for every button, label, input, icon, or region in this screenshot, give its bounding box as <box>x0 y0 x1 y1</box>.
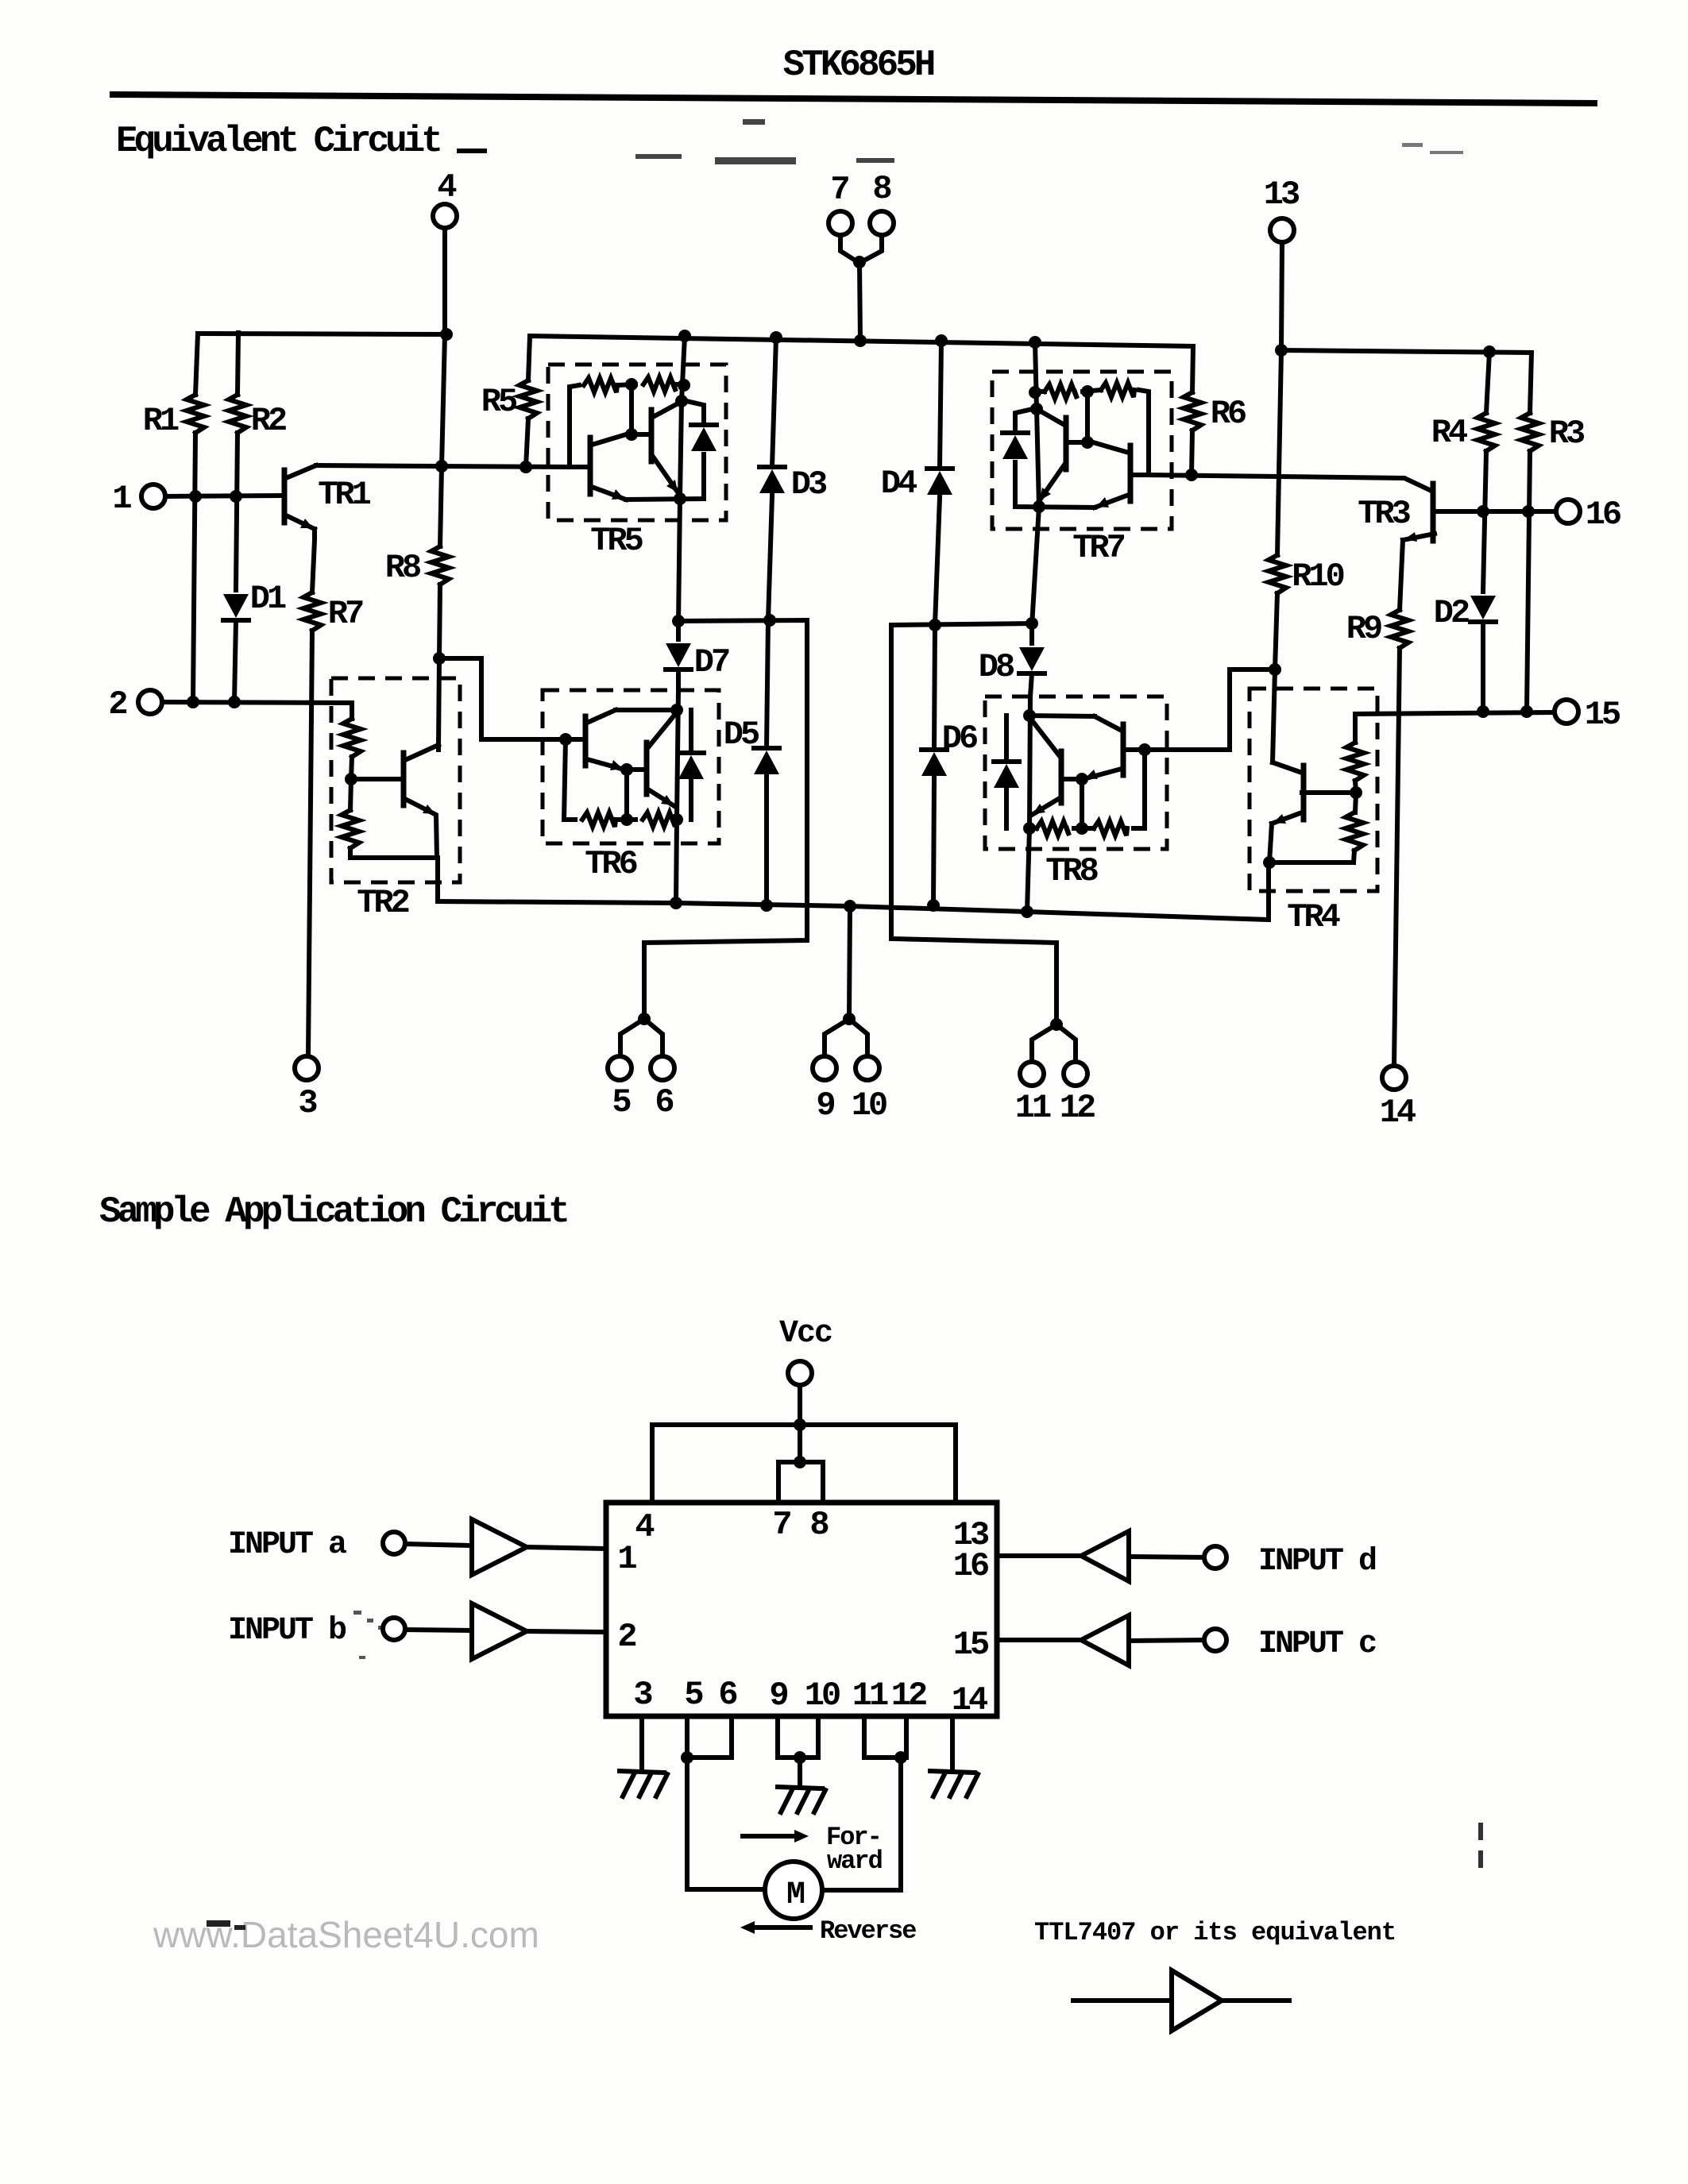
svg-text:D7: D7 <box>694 643 729 681</box>
diode D1 <box>223 594 249 618</box>
wire pin4 stub <box>442 228 447 334</box>
TR6 internal diode <box>689 710 693 752</box>
wire pin2 <box>162 702 352 719</box>
TR7 inner right vertical <box>1139 390 1149 475</box>
pin 4 terminal <box>433 204 457 228</box>
TR5 inner left vertical <box>570 385 579 467</box>
wire pins 9-10 join <box>775 1716 780 1758</box>
TR6 inner left vertical <box>564 739 575 820</box>
INPUT c terminal <box>1204 1629 1226 1651</box>
wire input a <box>405 1544 472 1545</box>
TR8 inner right vertical <box>1134 750 1145 828</box>
TR7 center vertical <box>1085 392 1090 442</box>
svg-text:INPUT d: INPUT d <box>1258 1544 1376 1580</box>
svg-text:10: 10 <box>852 1086 886 1125</box>
pin 2 terminal <box>138 690 162 714</box>
svg-text:14: 14 <box>952 1681 987 1719</box>
TR8 bottom rail resistor b <box>1074 826 1094 831</box>
wire TR7 main vertical <box>1032 342 1039 626</box>
wire TR1 collector to TR5 <box>316 465 570 467</box>
buffer input b <box>472 1603 527 1659</box>
svg-text:5: 5 <box>612 1083 631 1121</box>
resistor R4 <box>1486 352 1489 413</box>
svg-text:INPUT c: INPUT c <box>1258 1626 1376 1662</box>
ground pin14 <box>930 1771 975 1773</box>
watermark smudge <box>207 1920 245 1930</box>
TR6 bottom rail resistor b <box>616 817 635 822</box>
wire pins 11-12 fork <box>1032 1024 1056 1062</box>
svg-text:Reverse: Reverse <box>820 1916 916 1946</box>
svg-text:D8: D8 <box>979 648 1014 686</box>
heading dash <box>459 149 485 153</box>
svg-text:11: 11 <box>1015 1089 1051 1127</box>
pin 10 terminal <box>856 1056 879 1080</box>
svg-text:TR2: TR2 <box>357 884 408 922</box>
svg-text:4: 4 <box>437 168 456 206</box>
reverse arrow <box>753 1925 810 1930</box>
svg-text:TR3: TR3 <box>1358 495 1410 533</box>
TR2 resistor lower <box>345 773 357 785</box>
resistor R10 <box>1277 350 1281 555</box>
wire Vcc rail <box>652 1425 956 1503</box>
svg-text:M: M <box>786 1877 805 1913</box>
svg-text:14: 14 <box>1380 1094 1416 1132</box>
svg-text:5: 5 <box>684 1676 703 1714</box>
IC box <box>606 1503 997 1716</box>
wire TR1 emitter to pin3 <box>312 529 315 592</box>
buffer input a <box>472 1519 527 1575</box>
diode D5 <box>754 751 779 774</box>
forward arrow <box>743 1834 796 1839</box>
svg-text:D2: D2 <box>1434 594 1469 632</box>
resistor R6 <box>1192 346 1193 392</box>
transistor TR4 dashed box <box>1250 689 1377 891</box>
svg-text:4: 4 <box>635 1508 654 1546</box>
TR4 resistor upper <box>1346 743 1364 781</box>
svg-text:D6: D6 <box>942 720 977 758</box>
svg-text:R3: R3 <box>1549 415 1585 453</box>
svg-text:1: 1 <box>617 1540 636 1578</box>
wire buffer d <box>1129 1557 1204 1557</box>
wire input b <box>405 1630 472 1630</box>
pin 7 terminal <box>829 211 852 235</box>
wire TR4 emitter <box>1269 824 1354 862</box>
resistor R7 <box>303 592 321 631</box>
wire pins 9-10 fork <box>825 1019 849 1056</box>
TR7 transistor Q2 <box>1064 418 1069 469</box>
svg-text:D3: D3 <box>791 465 827 504</box>
wire top rail left <box>198 334 446 334</box>
svg-text:R1: R1 <box>143 402 179 440</box>
svg-text:D5: D5 <box>724 716 759 754</box>
wire bottom bus <box>438 862 1269 920</box>
svg-text:16: 16 <box>953 1547 988 1585</box>
wire D3 to D5 <box>767 496 772 748</box>
TR7 emitter rail <box>1015 507 1095 507</box>
TR6 transistor Q2 <box>644 743 650 794</box>
diode D6 <box>921 752 947 776</box>
resistor R1 <box>195 334 198 395</box>
TR5 emitter rail <box>626 499 704 500</box>
ground pins 9-10 <box>778 1787 822 1788</box>
transistor TR8 dashed box <box>985 696 1167 849</box>
svg-text:Vcc: Vcc <box>779 1316 832 1352</box>
diode D7 <box>676 624 681 639</box>
TR8 top rail <box>1029 716 1095 716</box>
pin 1 terminal <box>141 484 165 508</box>
TR6 bottom rail resistor a <box>582 812 616 827</box>
svg-text:9: 9 <box>816 1086 834 1125</box>
wire buffer a to pin1 <box>527 1547 606 1549</box>
wire pin1 to TR1 base <box>165 496 281 496</box>
svg-text:TR8: TR8 <box>1045 852 1097 890</box>
svg-text:3: 3 <box>298 1084 317 1122</box>
pin 15 terminal <box>1555 700 1578 723</box>
pin 9 terminal <box>813 1056 836 1080</box>
svg-text:INPUT b: INPUT b <box>228 1613 346 1649</box>
svg-text:R5: R5 <box>481 383 517 421</box>
svg-text:D1: D1 <box>250 580 286 618</box>
Vcc terminal <box>788 1361 812 1385</box>
INPUT a terminal <box>383 1532 405 1554</box>
svg-text:2: 2 <box>617 1618 635 1656</box>
svg-text:TR5: TR5 <box>590 522 643 560</box>
svg-text:3: 3 <box>633 1676 652 1714</box>
svg-text:10: 10 <box>805 1677 840 1715</box>
wire Vcc stub <box>798 1385 802 1462</box>
TR8 transistor Q1 <box>1121 724 1126 775</box>
TR6 top rail <box>616 708 677 712</box>
wire pins 7-8 fork <box>840 235 858 262</box>
wire pins 5-6 fork <box>620 1019 644 1056</box>
transistor TR3 <box>1431 484 1436 541</box>
TR8 bottom rail resistor a <box>1094 821 1127 835</box>
TR7 top rail resistor a <box>1101 383 1134 397</box>
TR5 top rail resistor b <box>617 384 635 385</box>
motor M <box>765 1862 822 1919</box>
transistor TR6 dashed box <box>543 690 719 843</box>
svg-text:11: 11 <box>852 1677 888 1715</box>
wire motor left <box>687 1758 765 1889</box>
TR5 transistor Q1 <box>588 438 593 494</box>
wire TR8 main vertical <box>1027 696 1030 912</box>
TR7 transistor Q1 <box>1128 446 1134 501</box>
svg-text:Sample Application Circuit: Sample Application Circuit <box>99 1191 567 1233</box>
smudge marks <box>635 119 894 164</box>
TR2 resistor upper <box>343 719 361 757</box>
TR5 top rail resistor a <box>584 378 617 392</box>
pin 5 terminal <box>608 1056 632 1080</box>
pin 13 terminal <box>1270 218 1294 242</box>
svg-text:R4: R4 <box>1431 414 1467 452</box>
resistor R3 <box>1530 353 1532 413</box>
buffer symbol <box>1073 1998 1172 2003</box>
svg-text:www.DataSheet4U.com: www.DataSheet4U.com <box>153 1914 539 1955</box>
resistor R2 <box>238 333 238 395</box>
pin 3 terminal <box>295 1056 319 1080</box>
TR5 internal diode <box>701 454 706 499</box>
svg-text:TR4: TR4 <box>1287 898 1339 936</box>
wire buffer c <box>1129 1640 1204 1641</box>
pin 12 terminal <box>1064 1062 1087 1086</box>
wire pins 5-6 join <box>685 1716 689 1758</box>
svg-text:12: 12 <box>891 1677 926 1715</box>
resistor R8 <box>431 546 449 585</box>
svg-text:R9: R9 <box>1346 610 1381 648</box>
wire pin4/R8 line <box>440 334 445 546</box>
svg-text:TR6: TR6 <box>585 845 636 883</box>
svg-text:TR7: TR7 <box>1072 529 1124 567</box>
wire TR5 main vertical <box>678 336 685 624</box>
svg-text:8: 8 <box>872 170 890 208</box>
INPUT d terminal <box>1204 1546 1226 1569</box>
wire motor right <box>822 1758 901 1890</box>
svg-text:7: 7 <box>772 1506 790 1544</box>
transistor TR2 <box>401 753 407 805</box>
svg-text:8: 8 <box>809 1506 828 1544</box>
buffer input c <box>1081 1615 1129 1665</box>
wire top rail middle <box>530 336 1193 346</box>
transistor TR5 dashed box <box>548 365 726 520</box>
svg-text:R2: R2 <box>251 402 286 440</box>
pin 8 terminal <box>870 211 894 235</box>
wire D4 to D6 <box>934 497 940 750</box>
TR5 center vertical <box>629 384 634 434</box>
transistor TR2 dashed box <box>331 678 460 882</box>
svg-text:Equivalent Circuit: Equivalent Circuit <box>116 121 440 162</box>
wire pin16 <box>1477 505 1489 518</box>
svg-text:ward: ward <box>827 1846 883 1876</box>
svg-text:6: 6 <box>655 1083 673 1121</box>
wire TR6 main vertical <box>676 690 678 903</box>
horizontal rule <box>113 95 1594 103</box>
resistor R5 <box>528 336 530 380</box>
svg-text:16: 16 <box>1586 496 1620 534</box>
svg-text:2: 2 <box>108 685 126 723</box>
TR7 internal diode <box>1013 462 1018 507</box>
wire R10 to TR8 base <box>1145 669 1275 750</box>
transistor TR4 <box>1301 766 1307 820</box>
pin 6 terminal <box>651 1056 674 1080</box>
svg-text:INPUT a: INPUT a <box>228 1527 347 1563</box>
wire pin16 to buffer d <box>997 1553 1081 1558</box>
wire pin 9-10 ground stub <box>798 1758 802 1785</box>
svg-text:R8: R8 <box>385 549 420 587</box>
wire pins 11-12 join <box>862 1716 867 1758</box>
wire pins 7-8 bracket <box>778 1462 823 1503</box>
wire pin15 <box>1355 712 1555 743</box>
TR6 transistor Q1 <box>583 716 589 766</box>
svg-text:7: 7 <box>830 171 848 209</box>
diode D8 <box>1029 626 1034 643</box>
transistor TR7 dashed box <box>992 372 1172 529</box>
TR8 internal diode <box>1004 716 1009 761</box>
svg-text:D4: D4 <box>881 465 917 503</box>
wire top rail right <box>1280 350 1532 353</box>
svg-text:6: 6 <box>718 1676 736 1714</box>
speckle trail <box>353 1611 385 1659</box>
wire pin14 ground stub <box>950 1716 955 1769</box>
pin 16 terminal <box>1556 500 1580 523</box>
svg-text:13: 13 <box>1264 176 1300 214</box>
ground pin3 <box>620 1771 664 1773</box>
TR8 transistor Q2 <box>1059 751 1064 803</box>
pin 14 terminal <box>1382 1066 1406 1090</box>
diode D3 <box>772 338 776 467</box>
diode D2 <box>1470 596 1496 619</box>
TR4 resistor lower <box>1355 793 1356 812</box>
wire pin3 ground stub <box>639 1716 644 1769</box>
diode D4 <box>940 341 941 469</box>
svg-text:15: 15 <box>1585 696 1620 734</box>
svg-text:12: 12 <box>1060 1089 1095 1127</box>
wire node 785 right <box>891 623 1056 1024</box>
svg-text:R7: R7 <box>328 595 363 633</box>
TR7 top rail resistor b <box>1083 390 1101 392</box>
svg-text:1: 1 <box>112 480 131 518</box>
svg-text:STK6865H: STK6865H <box>783 44 934 86</box>
wire TR4 collector line <box>1273 669 1275 762</box>
svg-text:R6: R6 <box>1211 395 1246 433</box>
TR5 transistor Q2 <box>649 410 655 461</box>
transistor TR1 <box>282 470 288 523</box>
wire R8 branch to TR6 <box>439 658 566 739</box>
INPUT b terminal <box>383 1618 405 1640</box>
wire node 780 left <box>644 620 807 1019</box>
wire buffer b to pin2 <box>527 1631 606 1632</box>
svg-text:TTL7407 or its equivalent: TTL7407 or its equivalent <box>1034 1918 1396 1947</box>
buffer input d <box>1081 1531 1129 1581</box>
wire TR2 collector <box>436 745 441 750</box>
svg-text:9: 9 <box>769 1677 787 1715</box>
wire TR7 to TR3 base <box>1149 475 1431 491</box>
svg-text:TR1: TR1 <box>318 476 370 514</box>
svg-text:15: 15 <box>953 1626 989 1664</box>
stray dashes <box>1478 1823 1483 1868</box>
pin 11 terminal <box>1020 1062 1044 1086</box>
wire pin15 to buffer c <box>997 1638 1081 1642</box>
resistor R9 <box>1400 540 1403 610</box>
wire pin13 stub <box>1281 242 1282 350</box>
svg-text:R10: R10 <box>1292 558 1343 596</box>
